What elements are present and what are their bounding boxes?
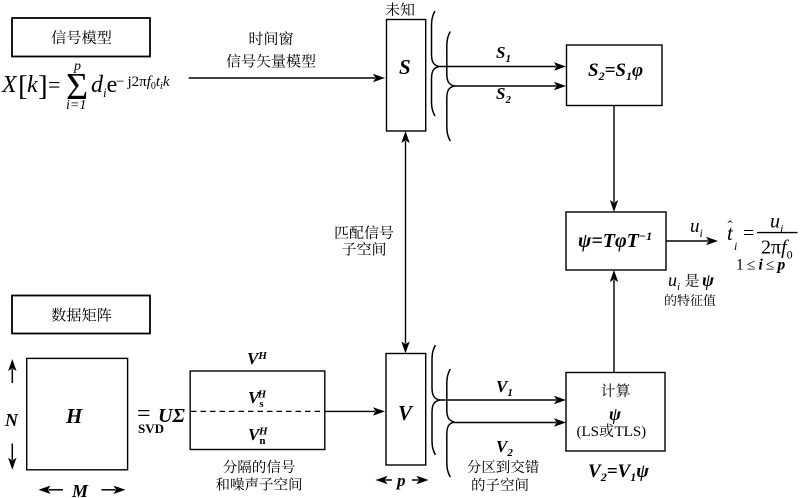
svg-text:p: p: [395, 471, 406, 490]
p dimension arrows below V: [386, 479, 393, 481]
svg-text:V2: V2: [496, 437, 513, 459]
svg-text:ui: ui: [690, 216, 703, 240]
N dimension arrows left of H: [11, 369, 13, 383]
svg-text:=: =: [48, 72, 60, 97]
svg-text:1 ≤ i ≤ p: 1 ≤ i ≤ p: [736, 257, 786, 274]
double arrow between S and V (matched signal subspace): [405, 141, 407, 344]
svg-text:ui: ui: [770, 211, 783, 236]
svg-text:ˆ: ˆ: [728, 219, 733, 235]
svg-text:die: die: [91, 72, 117, 100]
arrow: compute box up into psi box: [613, 280, 615, 373]
svg-text:S2: S2: [496, 84, 511, 106]
brace 1 right of V: [432, 345, 440, 455]
svg-text:i: i: [734, 239, 737, 253]
arrow V2 into compute box: [454, 422, 556, 424]
svg-text:ui: ui: [668, 270, 680, 293]
dashed-to-solid arrow: V_s^H row into V box: [325, 410, 375, 412]
arrow S1 into S2 box: [439, 66, 556, 68]
svg-text:V: V: [398, 401, 414, 425]
svg-text:VH: VH: [247, 349, 267, 368]
svg-text:X: X: [1, 72, 18, 98]
svg-text:H: H: [65, 404, 83, 428]
svg-text:p: p: [73, 59, 81, 74]
arrow: S2 box down to psi box: [613, 106, 615, 203]
svg-text:V1: V1: [496, 377, 513, 399]
svg-text:V2=V1ψ: V2=V1ψ: [588, 461, 649, 484]
arrow V1 into compute box: [439, 399, 556, 401]
svg-text:N: N: [4, 410, 19, 430]
brace 2 right of V: [447, 369, 455, 477]
box psi=T*phi*T^-1: [566, 212, 666, 270]
matrix H box: [27, 358, 128, 469]
svg-text:=: =: [743, 223, 754, 245]
svg-text:]: ]: [38, 70, 48, 102]
svg-text:S: S: [399, 55, 411, 79]
svg-text:TLS): TLS): [615, 424, 647, 440]
svg-text:− j2πf0tik: − j2πf0tik: [116, 74, 170, 92]
label 未知 above S: [385, 2, 414, 16]
svg-text:ψ: ψ: [702, 270, 715, 290]
arrow S2 into S2 box: [454, 85, 556, 87]
arrow: signal model to S (time window): [189, 77, 375, 79]
M dimension arrows below H: [49, 489, 64, 491]
svg-text:ψ=TφT−1: ψ=TφT−1: [578, 229, 652, 252]
svg-text:VnH: VnH: [248, 425, 268, 447]
arrow: u_i out of psi box: [666, 240, 708, 242]
matrix S box: [387, 20, 426, 132]
matrix V box: [386, 354, 426, 466]
svg-text:(LS: (LS: [577, 424, 600, 440]
svg-text:S2=S1φ: S2=S1φ: [588, 60, 643, 83]
svg-text:M: M: [71, 481, 89, 498]
box compute-psi (LS or TLS): [566, 373, 665, 452]
label 分隔的信号 / 和噪声子空间: [223, 460, 294, 473]
svg-text:i=1: i=1: [66, 98, 86, 113]
svg-text:S1: S1: [496, 43, 511, 65]
svg-text:ψ: ψ: [609, 404, 622, 424]
brace 1 right of S: [431, 11, 439, 116]
svg-text:VsH: VsH: [248, 388, 267, 410]
box: signal-model label 信号模型: [12, 18, 150, 57]
brace 2 right of S: [447, 32, 455, 142]
box S2=S1*phi: [567, 45, 663, 106]
svg-text:UΣ: UΣ: [158, 405, 185, 427]
dashed partition line in V^H box: [191, 410, 325, 412]
box: data-matrix label 数据矩阵: [12, 296, 150, 334]
svg-text:k: k: [27, 72, 38, 98]
V^H box (partitioned): [190, 371, 325, 450]
